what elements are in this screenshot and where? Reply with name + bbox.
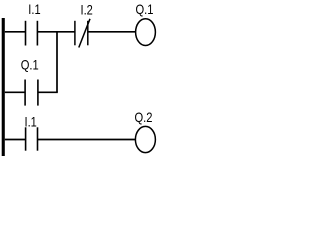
wire branch rail to Q.1 contact — [5, 91, 25, 93]
contact I.1 rung1 — [26, 21, 38, 46]
svg-text:I.2: I.2 — [81, 1, 93, 17]
wire rung1 rail to I.1 — [5, 31, 26, 33]
wire branch vertical junction — [56, 32, 58, 93]
svg-text:Q.1: Q.1 — [21, 57, 39, 73]
wire rung2 I.1 to coil Q.2 — [38, 139, 136, 141]
contact I.2 (normally closed) — [75, 19, 90, 48]
coil Q.2 — [135, 126, 155, 152]
wire rung2 rail to I.1 — [5, 139, 26, 141]
wire rung1 I.1 to I.2 — [37, 31, 75, 33]
svg-text:I.1: I.1 — [25, 114, 37, 130]
contact Q.1 branch — [25, 80, 38, 106]
left power rail — [2, 18, 5, 156]
contact I.1 rung2 — [26, 127, 38, 150]
wire branch Q.1 contact to junction — [38, 91, 58, 93]
svg-text:Q.1: Q.1 — [136, 1, 154, 17]
svg-text:Q.2: Q.2 — [135, 109, 153, 125]
wire rung1 I.2 to coil Q.1 — [88, 31, 136, 33]
coil Q.1 — [136, 19, 156, 46]
svg-text:I.1: I.1 — [28, 1, 40, 17]
